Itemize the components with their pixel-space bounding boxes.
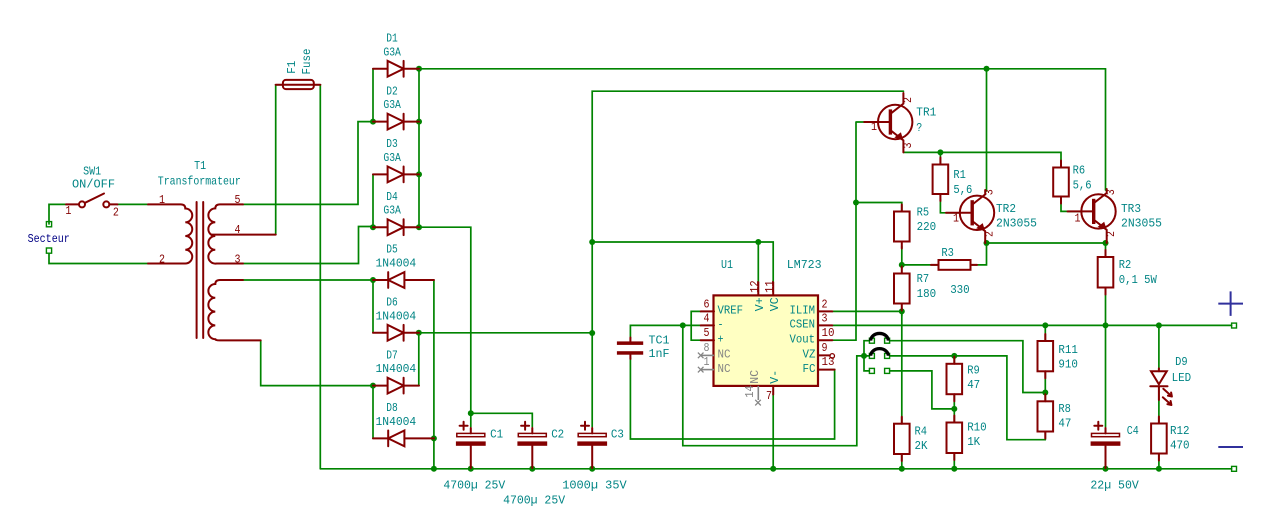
svg-text:1: 1 [159, 193, 165, 207]
wire R5/R3/R7 junction links [902, 246, 939, 269]
svg-text:Vout: Vout [790, 332, 816, 346]
wire jumper JP3 right pad to R9/R10 junction [890, 371, 955, 409]
svg-text:T1: T1 [194, 159, 206, 173]
svg-text:2: 2 [983, 231, 997, 237]
svg-text:R5: R5 [917, 205, 930, 219]
transistor TR3 [1068, 189, 1116, 243]
svg-text:?: ? [916, 121, 922, 135]
LED D9 [1150, 368, 1172, 405]
U1 pin 9 VZ unconnected [819, 354, 835, 359]
wire switch to transformer pin 1 [118, 203, 149, 205]
svg-text:G3A: G3A [383, 98, 401, 112]
U1 pin 11 VC [772, 282, 774, 295]
node + output terminal [1218, 291, 1243, 328]
junction rail at C2 [529, 466, 535, 472]
wire D4 junction to C1 plus [419, 227, 471, 427]
svg-text:3: 3 [983, 189, 997, 195]
wire R4 top from ILIM node [901, 311, 903, 423]
wire R6 bottom to TR3 base [1061, 202, 1083, 212]
svg-text:2: 2 [159, 253, 165, 267]
resistor R2 [1098, 250, 1114, 295]
wire R2 top to emitter rail [1105, 243, 1107, 259]
wire TC1 bottom to U1 FC [630, 358, 834, 439]
wire D5 cathode to D6 anode [372, 280, 374, 333]
junction R2/C4 on +out [1103, 322, 1109, 328]
wire R7 bottom to ILIM node [901, 308, 903, 316]
svg-text:Fuse: Fuse [300, 49, 314, 75]
svg-text:8: 8 [704, 341, 710, 355]
transformer T1 winding B [208, 280, 260, 340]
wire C4 top from +out line [1105, 325, 1107, 427]
svg-text:5: 5 [704, 326, 710, 340]
svg-text:1N4004: 1N4004 [376, 415, 417, 429]
svg-text:1: 1 [871, 120, 877, 134]
junction R9 top [951, 353, 957, 359]
junction rail at C1 [468, 466, 474, 472]
svg-text:13: 13 [822, 355, 835, 369]
svg-text:6: 6 [704, 298, 710, 312]
junction D3 cathode [416, 171, 422, 177]
svg-text:11: 11 [763, 280, 777, 293]
svg-text:Transformateur: Transformateur [158, 175, 241, 189]
svg-text:4700µ 25V: 4700µ 25V [503, 493, 566, 507]
svg-text:VC: VC [768, 297, 782, 311]
svg-text:TR2: TR2 [996, 202, 1016, 216]
svg-text:180: 180 [917, 287, 937, 301]
svg-text:D8: D8 [386, 401, 398, 415]
junction rail at R12 [1156, 466, 1162, 472]
wire T1 pin 3 to D3/D4 anodes [243, 227, 373, 264]
svg-text:2N3055: 2N3055 [996, 217, 1037, 231]
junction pin4 branch [680, 322, 686, 328]
fuse F1 [276, 80, 321, 89]
svg-text:R2: R2 [1119, 258, 1132, 272]
wire U1 V- to bottom rail [772, 394, 774, 469]
svg-text:D9: D9 [1175, 355, 1188, 369]
wire R11 pins [1044, 325, 1046, 403]
junction U1 V+ pin12 [755, 239, 761, 245]
capacitor C4 [1091, 422, 1121, 468]
junction - input node at jumpers [861, 353, 867, 359]
svg-text:2: 2 [1104, 231, 1118, 237]
diode D4 [373, 219, 419, 235]
U1 pin 3 CSEN [819, 324, 832, 326]
transistor TR1 [864, 93, 912, 152]
jumper JP1 closed [869, 333, 889, 343]
wire R9 pins [953, 356, 955, 425]
wire R4 bottom to rail [901, 452, 903, 469]
wire - input line to TC1 top [630, 325, 700, 338]
wire C1 to C2 plus branch [471, 413, 533, 427]
svg-text:2: 2 [901, 97, 915, 103]
wire mains live from connector to switch [49, 204, 66, 224]
svg-text:NC: NC [718, 348, 731, 362]
svg-text:47: 47 [1058, 417, 1071, 431]
capacitor C2 [517, 422, 547, 468]
transformer T1 primary winding [148, 204, 192, 263]
junction top rail TR2 collector [984, 66, 990, 72]
svg-text:5: 5 [235, 193, 241, 207]
svg-text:TR1: TR1 [916, 106, 936, 120]
junction TR3 emitter / R2 [1103, 240, 1109, 246]
wire T1 pin 5 to D1/D2 anodes [243, 122, 373, 205]
junction D8 anode [431, 435, 437, 441]
svg-text:NC: NC [748, 370, 762, 384]
U1 pin 4 inverting input [701, 324, 714, 326]
wire VREF to + input [691, 311, 701, 340]
svg-text:TR3: TR3 [1121, 202, 1141, 216]
junction TR2 emitter [984, 240, 990, 246]
svg-text:R4: R4 [915, 425, 928, 439]
wire R3 right to TR2 emitter node [971, 243, 987, 265]
svg-text:330: 330 [950, 283, 970, 297]
node - output terminal [1218, 447, 1243, 471]
junction R9/R10 [951, 406, 957, 412]
svg-text:2: 2 [822, 298, 828, 312]
svg-text:R11: R11 [1058, 343, 1078, 357]
wire LED cathode to R12 [1158, 387, 1160, 426]
svg-text:R10: R10 [967, 421, 987, 435]
svg-text:5,6: 5,6 [953, 183, 972, 197]
diode D8 [373, 431, 434, 447]
wire R2 bottom to +out line [1105, 286, 1107, 326]
wire jumper JP1 right pad to R11/R8 junction [890, 341, 1046, 393]
svg-text:1N4004: 1N4004 [376, 309, 417, 323]
junction aux spine C3 line [589, 330, 595, 336]
resistor R1 [933, 158, 949, 202]
svg-text:R6: R6 [1073, 164, 1086, 178]
svg-text:4: 4 [704, 312, 710, 326]
diode D5 [373, 272, 434, 288]
wire jumper left pads to - node [864, 341, 869, 371]
junction rail at R4 [899, 466, 905, 472]
diode D3 [373, 167, 419, 183]
resistor R12 [1151, 417, 1167, 461]
svg-text:910: 910 [1058, 358, 1078, 372]
wire T1 winding B top to D5/D6 [243, 279, 373, 281]
svg-text:G3A: G3A [383, 45, 401, 59]
svg-text:CSEN: CSEN [790, 318, 816, 332]
svg-text:220: 220 [917, 220, 937, 234]
svg-text:1: 1 [65, 204, 71, 218]
wire aux plus spine to TR1 collector [592, 91, 903, 427]
svg-text:V+: V+ [753, 297, 767, 311]
svg-text:R7: R7 [917, 272, 930, 286]
wire T1 winding B bottom to D7/D8 [261, 340, 373, 385]
svg-text:1N4004: 1N4004 [376, 257, 417, 271]
junction D9 branch on +out [1156, 322, 1162, 328]
svg-text:C3: C3 [611, 427, 624, 441]
svg-text:ON/OFF: ON/OFF [72, 178, 115, 192]
svg-text:R1: R1 [953, 168, 966, 182]
capacitor C3 [577, 422, 607, 468]
junction aux spine V+ line [589, 239, 595, 245]
svg-text:NC: NC [718, 362, 731, 376]
junction R5/R3/R7 [899, 262, 905, 268]
svg-text:G3A: G3A [383, 151, 401, 165]
svg-text:D7: D7 [386, 348, 398, 362]
wire D9 anode from +out line [1158, 325, 1160, 369]
U1 pin 2 ILIM [819, 310, 832, 312]
svg-text:22µ 50V: 22µ 50V [1090, 478, 1139, 492]
svg-text:U1: U1 [721, 258, 733, 272]
svg-text:3: 3 [822, 312, 828, 326]
svg-text:G3A: G3A [383, 204, 401, 218]
svg-text:2N3055: 2N3055 [1121, 217, 1162, 231]
junction R11/R8 [1042, 390, 1048, 396]
svg-text:LM723: LM723 [787, 258, 822, 272]
wire U1 Vout to TR1 base and R5 [832, 122, 874, 340]
svg-text:R8: R8 [1058, 402, 1071, 416]
svg-text:ILIM: ILIM [790, 304, 816, 318]
svg-text:10: 10 [822, 326, 835, 340]
U1 pin 14 NC [755, 386, 761, 406]
svg-text:1: 1 [953, 212, 959, 226]
junction D7 anode / winding B [370, 383, 376, 389]
svg-text:FC: FC [803, 362, 816, 376]
junction TR1 base / R5 [853, 200, 859, 206]
svg-text:2: 2 [113, 206, 119, 220]
svg-text:1: 1 [1075, 212, 1081, 226]
svg-text:470: 470 [1170, 439, 1190, 453]
svg-text:D4: D4 [386, 190, 398, 204]
diode D1 [373, 61, 419, 77]
svg-text:C4: C4 [1127, 424, 1139, 438]
wire D5/D8 anodes to bottom rail [433, 280, 435, 469]
junction rail at U1 V- [770, 466, 776, 472]
resistor R9 [947, 357, 963, 401]
U1 pin 5 non-inverting input [701, 339, 714, 341]
junction D2 cathode [416, 119, 422, 125]
jumper JP2 closed [869, 349, 889, 359]
wire mains neutral from connector to transformer pin 2 [49, 253, 148, 263]
svg-text:-: - [718, 318, 724, 332]
wire jumper JP2 right pad to R9 top and R8 bottom [890, 356, 1046, 440]
resistor R8 [1038, 394, 1054, 438]
svg-text:4: 4 [235, 223, 241, 237]
transformer T1 secondary winding pins 5-4-3 [208, 204, 275, 263]
junction rail at R10 [951, 466, 957, 472]
junction R1 top [937, 149, 943, 155]
transformer T1 core [197, 202, 204, 338]
U1 pin 1 NC [698, 367, 714, 373]
wire fuse F1 right to bottom rail [313, 85, 320, 469]
wire R8 bottom [1044, 429, 1046, 440]
wire CSEN +output sense line [832, 324, 1232, 326]
svg-text:5,6: 5,6 [1073, 178, 1092, 192]
junction R11 top [1042, 322, 1048, 328]
svg-text:1000µ 35V: 1000µ 35V [562, 479, 627, 493]
wire R1 bottom to TR2 base [940, 152, 961, 212]
svg-text:D6: D6 [386, 296, 398, 310]
U1 pin 7 V- [772, 386, 774, 395]
junction D4 anode [370, 224, 376, 230]
resistor R6 [1053, 161, 1069, 204]
svg-text:D3: D3 [386, 137, 398, 151]
svg-text:14: 14 [743, 385, 757, 398]
wire R12 bottom to rail [1158, 452, 1160, 469]
junction rail at C4 [1103, 466, 1109, 472]
svg-text:VZ: VZ [803, 348, 816, 362]
junction D5 cathode / winding B [370, 277, 376, 283]
svg-text:VREF: VREF [718, 304, 744, 318]
svg-text:V-: V- [768, 370, 782, 384]
svg-text:1nF: 1nF [649, 347, 670, 361]
U1 pin 6 VREF [701, 310, 714, 312]
svg-text:3: 3 [235, 253, 241, 267]
U1 pin 8 NC [698, 353, 714, 359]
svg-text:TC1: TC1 [649, 334, 670, 348]
wire D3 anode to D4 anode [372, 174, 374, 227]
switch SW1 [66, 194, 118, 208]
resistor R5 [894, 205, 910, 249]
diode D7 [373, 378, 419, 394]
wire D1-D4 cathodes and top +raw rail [419, 69, 1106, 227]
U1 pin 12 V+ [757, 282, 759, 295]
svg-text:4700µ 25V: 4700µ 25V [443, 479, 506, 493]
wire R10 bottom to rail [953, 450, 955, 469]
svg-text:3: 3 [901, 143, 915, 149]
wire TR1 emitter line to R1 and R6 [904, 152, 1062, 167]
resistor R11 [1038, 334, 1054, 378]
junction D2 anode [370, 119, 376, 125]
svg-text:D1: D1 [386, 32, 398, 46]
wire D1 anode to D2 anode [372, 69, 374, 122]
resistor R3 [931, 260, 977, 270]
junction C1-C2 branch [468, 410, 474, 416]
wire U1 ILIM to R7/R4 [832, 310, 902, 312]
junction D6 cathode aux+ [416, 330, 422, 336]
svg-text:R3: R3 [941, 246, 954, 260]
U1 pin 10 Vout [819, 339, 832, 341]
svg-text:F1: F1 [285, 61, 299, 74]
diode D6 [373, 325, 419, 341]
jumper JP3 open [869, 368, 889, 373]
resistor R10 [947, 416, 963, 461]
junction D1 cathode [416, 66, 422, 72]
svg-text:R9: R9 [967, 363, 980, 377]
wire T1 pin 4 to fuse F1 left [276, 85, 283, 235]
junction rail at D8 column [431, 466, 437, 472]
connector J Secteur [46, 222, 51, 254]
junction ILIM R7/R4 [899, 308, 905, 314]
svg-text:R12: R12 [1170, 424, 1190, 438]
svg-text:C2: C2 [551, 427, 564, 441]
capacitor C1 [456, 422, 486, 468]
wire R5 top link [856, 203, 902, 212]
resistor R7 [894, 267, 910, 311]
wire D7 anode to D8 cathode [372, 386, 374, 439]
wire V+ line to U1 pins 12 and 11 [592, 242, 773, 282]
svg-text:LED: LED [1172, 371, 1192, 385]
svg-text:0,1 5W: 0,1 5W [1119, 273, 1158, 287]
wire bottom ground rail [320, 468, 1231, 470]
wire emitter rail TR2-TR3 [987, 242, 1106, 244]
svg-text:C1: C1 [490, 427, 503, 441]
svg-text:SW1: SW1 [83, 164, 101, 178]
svg-text:7: 7 [766, 389, 772, 403]
wire top rail to TR2 collector [986, 69, 988, 191]
resistor R4 [894, 417, 910, 461]
op-amp regulator U1 LM723 body [714, 295, 819, 386]
wire top rail corner to TR3 collector [1105, 69, 1107, 190]
wire D6/D7 cathodes to aux plus [419, 333, 592, 386]
transistor TR2 [946, 190, 994, 243]
svg-text:Secteur: Secteur [28, 232, 70, 246]
svg-text:D5: D5 [386, 243, 398, 257]
wire - input branch to divider [683, 325, 864, 445]
svg-text:1N4004: 1N4004 [376, 362, 417, 376]
svg-text:9: 9 [822, 341, 828, 355]
svg-text:2K: 2K [915, 439, 929, 453]
svg-text:+: + [718, 332, 724, 346]
svg-text:D2: D2 [386, 84, 398, 98]
junction D4 cathode [416, 224, 422, 230]
svg-text:47: 47 [967, 378, 980, 392]
svg-text:1K: 1K [967, 435, 981, 449]
junction rail at C3 [589, 466, 595, 472]
svg-text:1: 1 [704, 355, 710, 369]
diode D2 [373, 114, 419, 130]
U1 pin 13 FC [819, 369, 835, 371]
svg-text:12: 12 [748, 280, 762, 293]
capacitor TC1 [617, 338, 643, 360]
svg-text:3: 3 [1104, 189, 1118, 195]
